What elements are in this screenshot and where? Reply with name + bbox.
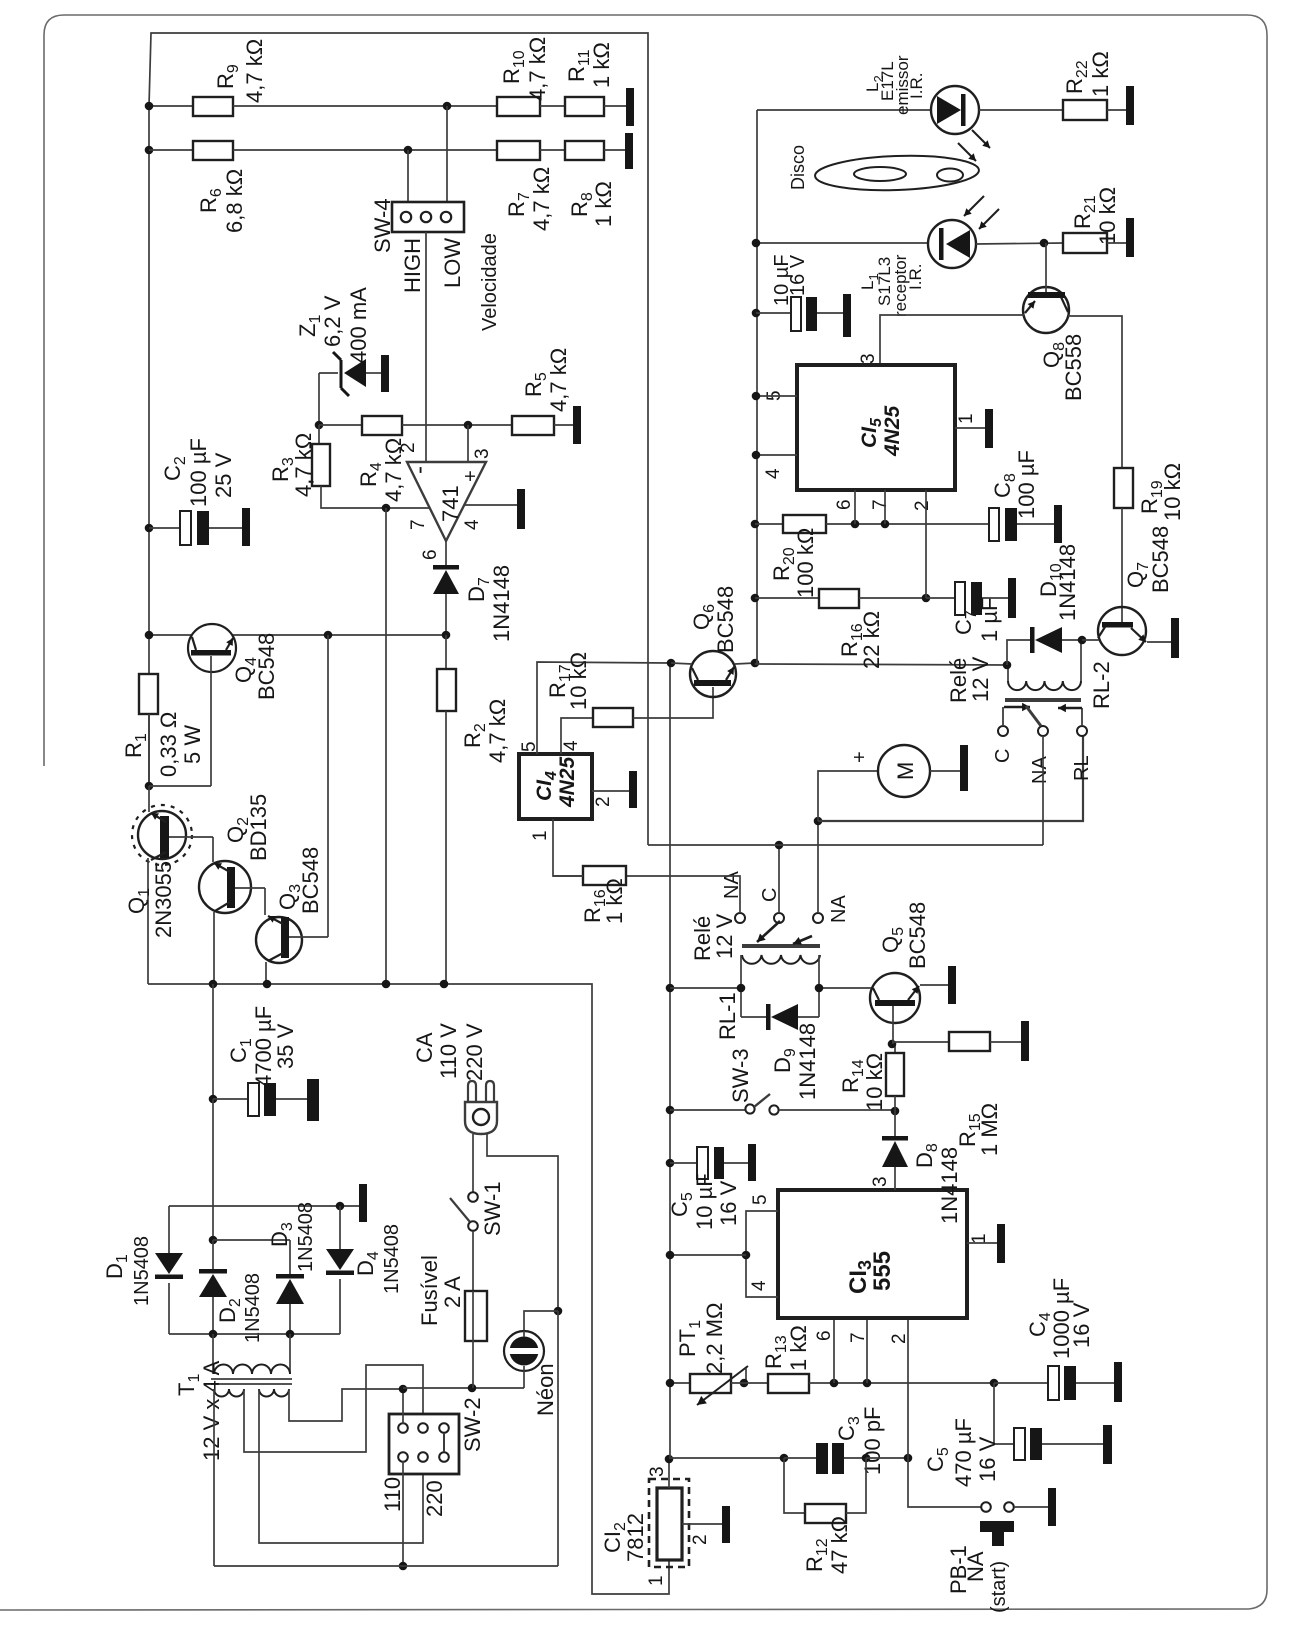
svg-text:12 V x 4 A: 12 V x 4 A xyxy=(199,1360,224,1461)
node +12 at pin45 row xyxy=(666,1251,675,1260)
transistor Q1 2N3055 xyxy=(132,805,192,865)
resistor R2 xyxy=(445,635,447,669)
ground CI2 pin2 xyxy=(722,1506,730,1543)
resistor R7 xyxy=(497,141,540,160)
node 555 pin7 xyxy=(863,1379,872,1388)
svg-text:2: 2 xyxy=(912,500,933,511)
IC CI2 7812 regulator xyxy=(649,1479,689,1567)
resistor R16 22k xyxy=(819,589,859,608)
node C4 tap xyxy=(990,1379,999,1388)
resistor R13 xyxy=(768,1374,809,1393)
wire CI5 pin1 to ground xyxy=(955,427,985,429)
transistor Q2 BD135 xyxy=(199,861,251,913)
svg-text:4,7 kΩ: 4,7 kΩ xyxy=(242,39,267,103)
svg-text:100 µF: 100 µF xyxy=(186,438,211,507)
fuse Fusivel 2A xyxy=(465,1291,487,1341)
wire R6 to R7 xyxy=(233,149,497,151)
svg-text:1 MΩ: 1 MΩ xyxy=(977,1103,1002,1156)
wire 555 pin7 lead xyxy=(866,1318,868,1383)
ground R11 xyxy=(626,88,634,126)
wire RL-1 NA right up xyxy=(817,821,819,913)
node RL-2 coil left xyxy=(1003,661,1012,670)
svg-text:6: 6 xyxy=(814,1330,835,1341)
svg-text:7: 7 xyxy=(408,519,429,530)
disc Disco xyxy=(814,153,979,193)
svg-text:2N3055: 2N3055 xyxy=(151,861,176,938)
wire 555 pins 4,5 tie xyxy=(746,1211,778,1297)
wire primary A left to AC line xyxy=(213,1389,215,1566)
svg-text:SW-3: SW-3 xyxy=(728,1048,753,1103)
svg-text:CA: CA xyxy=(412,1032,437,1063)
node AC bottom left xyxy=(399,1562,408,1571)
node bridge positive xyxy=(209,1236,218,1245)
wire 741 pin6 to D7 xyxy=(445,541,447,565)
svg-text:Velocidade: Velocidade xyxy=(479,233,501,331)
wire AC neutral line y1388 xyxy=(403,1387,524,1389)
svg-text:Néon: Néon xyxy=(533,1363,558,1416)
wire RL-1 C contact up xyxy=(778,845,780,913)
wire plug right lead xyxy=(487,1134,558,1311)
node timing row left xyxy=(666,1379,675,1388)
svg-text:1 kΩ: 1 kΩ xyxy=(591,181,616,227)
svg-text:4,7 kΩ: 4,7 kΩ xyxy=(525,37,550,101)
wire top rail row 1 (R9 line) xyxy=(149,105,193,107)
resistor R17 xyxy=(593,708,633,727)
wire R16 22k row y598 xyxy=(751,594,760,603)
resistor R19 xyxy=(1114,468,1133,508)
svg-text:10 µF: 10 µF xyxy=(692,1173,717,1230)
wire R20 to pins 6,7 and C8 xyxy=(826,523,989,525)
svg-text:(start): (start) xyxy=(988,1561,1010,1613)
node AC line neon tap xyxy=(554,1307,563,1316)
node C3 right xyxy=(862,1454,871,1463)
wire timing row y1383 xyxy=(670,1382,690,1384)
node pin7 rail to raw supply xyxy=(382,504,391,513)
svg-text:2: 2 xyxy=(398,442,419,453)
resistor R8 xyxy=(565,141,604,160)
svg-text:1N5408: 1N5408 xyxy=(295,1202,317,1272)
svg-text:3: 3 xyxy=(472,448,493,459)
node RL-1 C on crosswire xyxy=(775,841,784,850)
svg-text:4,7 kΩ: 4,7 kΩ xyxy=(546,348,571,412)
capacitor C2 xyxy=(145,524,154,533)
svg-text:10 kΩ: 10 kΩ xyxy=(1160,463,1185,521)
svg-text:22 kΩ: 22 kΩ xyxy=(859,611,884,669)
relay RL-2 contacts xyxy=(998,726,1008,736)
wire CI5 pin6 lead xyxy=(854,490,856,524)
node R3/R4/Z1 junction xyxy=(315,421,324,430)
svg-text:12 V: 12 V xyxy=(712,913,737,959)
ground C7 xyxy=(1008,578,1016,618)
wire 555 pin2 to PB-1 xyxy=(908,1458,981,1507)
resistor R6 xyxy=(193,141,233,160)
wire Q4 base link xyxy=(149,785,211,787)
node drive node D7/R2 xyxy=(442,631,451,640)
node AC node (fuse side) xyxy=(399,1385,408,1394)
node raw rail 741 supply xyxy=(382,980,391,989)
switch SW-4 xyxy=(392,202,464,232)
svg-text:555: 555 xyxy=(869,1251,896,1291)
wire crosswire y845 to RL-2 NA xyxy=(648,844,1043,846)
diode D9 xyxy=(766,1004,771,1030)
resistor R3 xyxy=(318,425,320,444)
led L2 emitter xyxy=(931,86,979,134)
svg-text:SW-4: SW-4 xyxy=(370,198,395,253)
wire R11 to ground xyxy=(604,105,626,107)
resistor R10 xyxy=(497,97,540,116)
wire raw supply rail y984 xyxy=(148,984,669,1594)
wire L1 row xyxy=(757,242,929,244)
capacitor C1 xyxy=(212,984,214,1099)
ground CI4 pin2 xyxy=(629,771,637,808)
ground PB-1 xyxy=(1048,1488,1056,1526)
ground 741 pin4 xyxy=(517,489,525,529)
wire SW-1 to fuse xyxy=(472,1231,474,1291)
wire SW-4 wiper to 741 pin2 xyxy=(425,232,427,462)
node fuse bottom xyxy=(468,1384,477,1393)
svg-text:4,7 kΩ: 4,7 kΩ xyxy=(291,433,316,497)
node +12 top junction xyxy=(667,659,676,668)
ground Q5 emitter xyxy=(948,966,956,1004)
node output row left xyxy=(145,631,154,640)
wire Q5 collector to relay xyxy=(817,987,871,989)
svg-text:1 kΩ: 1 kΩ xyxy=(602,878,627,924)
svg-text:110: 110 xyxy=(380,1477,405,1512)
svg-text:1N4148: 1N4148 xyxy=(795,1023,820,1100)
wire +12V vertical distribution xyxy=(669,663,671,1459)
node raw rail Q2 xyxy=(209,980,218,989)
resistor R5 xyxy=(512,416,554,435)
wire primary B left to SW-2 bottom middle xyxy=(259,1389,423,1543)
svg-text:6: 6 xyxy=(420,549,441,560)
node 555 pin2 xyxy=(904,1454,913,1463)
wire 555 pin1 to ground xyxy=(967,1242,997,1244)
capacitor C8 xyxy=(989,508,999,541)
node C3 left xyxy=(780,1454,789,1463)
svg-text:1: 1 xyxy=(956,413,977,424)
wire R17 to Q6 base xyxy=(633,687,713,718)
motor M xyxy=(878,745,930,797)
wire R19 to Q7 base xyxy=(1121,508,1123,622)
wire bridge ac bottom y1334 xyxy=(169,1333,340,1335)
ground Q7 emitter xyxy=(1171,618,1179,658)
svg-text:1 µF: 1 µF xyxy=(977,598,1002,642)
svg-text:4N25: 4N25 xyxy=(556,756,579,808)
ir emission arrows xyxy=(972,130,990,148)
ground Z1 xyxy=(381,355,389,392)
wire bridge ac top xyxy=(169,1205,359,1207)
wire CI2 pin2 to ground xyxy=(682,1523,722,1525)
svg-text:741: 741 xyxy=(438,485,463,522)
wire primary B right to AC node xyxy=(289,1389,403,1421)
resistor R11 xyxy=(565,97,604,116)
wire primary A right to SW-2 top middle xyxy=(244,1365,423,1452)
svg-text:6: 6 xyxy=(834,499,855,510)
wire pin3 drop xyxy=(467,425,469,462)
wire plug left lead xyxy=(472,1134,474,1192)
svg-text:LOW: LOW xyxy=(440,238,465,288)
wire CI5 pin5 to rail xyxy=(756,395,797,397)
wire R20 row y524 xyxy=(751,520,760,529)
transistor Q8 BC558 xyxy=(1023,287,1069,333)
svg-text:Fusível: Fusível xyxy=(417,1255,442,1326)
svg-text:35 V: 35 V xyxy=(273,1023,298,1069)
wire pin7 node down to raw rail xyxy=(385,508,387,984)
relay RL-1 contacts xyxy=(735,913,745,923)
diode D10 xyxy=(1007,640,1030,665)
svg-text:I.R.: I.R. xyxy=(906,264,925,290)
resistor R16 1k xyxy=(583,866,626,885)
resistor R1 xyxy=(139,674,158,714)
svg-text:C: C xyxy=(759,888,781,902)
wire Q8 right lead to R19 xyxy=(1068,316,1122,468)
wire AC bottom y1566 xyxy=(214,1565,558,1567)
svg-text:16 V: 16 V xyxy=(1069,1302,1094,1348)
transistor Q4 xyxy=(188,624,236,672)
svg-text:BC548: BC548 xyxy=(1148,526,1173,593)
resistor R20 xyxy=(783,515,826,533)
svg-text:1N5408: 1N5408 xyxy=(381,1224,403,1294)
wire D7 to drive node xyxy=(445,594,447,635)
svg-text:1 kΩ: 1 kΩ xyxy=(1088,51,1113,97)
svg-text:5: 5 xyxy=(750,1194,771,1205)
relay RL-2 coil xyxy=(1008,681,1081,690)
svg-text:1 kΩ: 1 kΩ xyxy=(589,42,614,88)
wire R9 to R10 row xyxy=(233,105,497,107)
wire SW-3 to R14 node xyxy=(779,1109,895,1111)
svg-text:3: 3 xyxy=(647,1466,668,1477)
wire R3 bottom to 741 pin7 xyxy=(321,486,430,508)
svg-text:BC548: BC548 xyxy=(298,847,323,914)
wire bridge top dc xyxy=(213,1239,290,1241)
svg-text:1N4148: 1N4148 xyxy=(1055,544,1080,621)
svg-text:100 pF: 100 pF xyxy=(860,1407,885,1476)
wire output row y635 xyxy=(149,634,192,636)
wire CI4 pin4 to R17 xyxy=(561,718,593,754)
op-amp 741 xyxy=(407,462,486,541)
svg-text:BC558: BC558 xyxy=(1061,334,1086,401)
wire C1 node to bridge xyxy=(212,1099,214,1240)
svg-text:100 µF: 100 µF xyxy=(1014,450,1039,519)
svg-text:10 kΩ: 10 kΩ xyxy=(1095,187,1120,245)
wire pin45 to +12 xyxy=(670,1254,746,1256)
wire RL-1 NA left to R16 xyxy=(626,876,740,913)
wire CI5 pin4 to rail xyxy=(756,454,797,456)
diode D3 xyxy=(289,1240,291,1274)
ground R5 xyxy=(573,406,581,444)
wire R2 to raw rail xyxy=(445,711,447,984)
wire R13 to pins 6,7 xyxy=(809,1382,994,1384)
capacitor C4 xyxy=(994,1382,1048,1384)
resistor R21 xyxy=(1063,233,1107,253)
diode D1 xyxy=(168,1206,170,1253)
svg-text:RL-2: RL-2 xyxy=(1089,661,1114,709)
node Q3 base drop xyxy=(324,631,333,640)
svg-text:1N5408: 1N5408 xyxy=(242,1273,264,1343)
ground C8 xyxy=(1054,505,1062,543)
capacitor C3 xyxy=(816,1443,828,1474)
wire motor feed crossbar y821 xyxy=(818,736,1083,821)
svg-text:6,2 V: 6,2 V xyxy=(320,295,345,347)
wire neon top lead xyxy=(524,1311,558,1331)
svg-text:7: 7 xyxy=(870,499,891,510)
svg-text:3: 3 xyxy=(858,353,879,364)
svg-text:1: 1 xyxy=(646,1575,667,1586)
wire CI2 pin3 to +12 node xyxy=(668,1459,670,1488)
wire SW-4 HIGH lead xyxy=(446,106,448,202)
wire +V left rail and top rail to disc section xyxy=(149,33,648,845)
svg-text:5 W: 5 W xyxy=(180,725,205,764)
svg-text:110 V: 110 V xyxy=(436,1023,461,1079)
svg-text:2: 2 xyxy=(889,1333,910,1344)
svg-text:7: 7 xyxy=(848,1332,869,1343)
svg-text:4,7 kΩ: 4,7 kΩ xyxy=(529,167,554,231)
svg-text:1N4148: 1N4148 xyxy=(937,1147,962,1224)
node raw rail R2 xyxy=(440,980,449,989)
svg-text:220 V: 220 V xyxy=(462,1023,487,1081)
svg-text:25 V: 25 V xyxy=(211,452,236,498)
transistor Q3 BC548 xyxy=(256,917,302,963)
wire +12 to RL-1 coil xyxy=(670,987,741,989)
wire CI4 pin2 to ground xyxy=(592,790,629,792)
wire AC line to bottom xyxy=(557,1311,559,1566)
neon lamp xyxy=(504,1331,544,1371)
wire SW-4 LOW lead xyxy=(407,150,409,202)
svg-text:RL-1: RL-1 xyxy=(715,992,740,1040)
wire rail row 2 (R6 line) xyxy=(149,149,193,151)
wire L2 row xyxy=(757,109,932,111)
svg-text:4: 4 xyxy=(462,519,483,530)
svg-text:2 A: 2 A xyxy=(440,1276,465,1308)
svg-text:BC548: BC548 xyxy=(713,586,738,653)
node R9 row / SW-4 HIGH drop xyxy=(443,102,452,111)
wire +12 rail disc section xyxy=(756,110,758,663)
svg-text:SW-2: SW-2 xyxy=(460,1397,485,1452)
ground R8 xyxy=(625,133,633,169)
svg-text:400 mA: 400 mA xyxy=(346,287,371,363)
ground R22 xyxy=(1126,86,1134,125)
switch SW-3 xyxy=(666,1106,675,1115)
resistor R9 xyxy=(193,97,233,116)
capacitor C5 470uF xyxy=(994,1383,1014,1444)
svg-text:1 kΩ: 1 kΩ xyxy=(786,1325,811,1371)
transistor Q7 xyxy=(1098,607,1146,655)
svg-text:16 V: 16 V xyxy=(975,1436,1000,1482)
wire R8 to ground xyxy=(604,149,625,151)
transistor Q6 xyxy=(690,651,736,697)
svg-text:4: 4 xyxy=(749,1280,770,1291)
switch SW-1 xyxy=(468,1192,478,1202)
svg-text:100 kΩ: 100 kΩ xyxy=(793,528,818,598)
capacitor C7 xyxy=(926,597,955,599)
svg-text:4: 4 xyxy=(763,468,784,479)
node CI5 pin7 xyxy=(881,520,890,529)
wire timer row y1458 xyxy=(670,1457,784,1459)
svg-text:0,33 Ω: 0,33 Ω xyxy=(156,712,181,777)
ir reflection arrows xyxy=(964,196,984,216)
ground C2 xyxy=(242,508,250,546)
wire RL-2 NA contact down xyxy=(1042,736,1044,845)
svg-text:+: + xyxy=(460,470,482,482)
svg-text:NA: NA xyxy=(963,1551,988,1582)
wire SW-2 top-left pin to AC node xyxy=(402,1389,404,1424)
ground CI5 pin1 xyxy=(985,409,993,448)
node 555 pin6 xyxy=(830,1379,839,1388)
wire 555 pin6 lead xyxy=(833,1318,835,1383)
led L1 receptor xyxy=(928,220,976,268)
svg-text:1N5408: 1N5408 xyxy=(131,1236,153,1306)
svg-text:4,7 kΩ: 4,7 kΩ xyxy=(485,699,510,763)
node CI5 pin6 xyxy=(851,520,860,529)
ground C4 xyxy=(1114,1362,1122,1402)
ground R15 xyxy=(1021,1021,1029,1061)
node +12V output node xyxy=(665,1455,674,1464)
node PT1 wiper xyxy=(740,1379,749,1388)
diode D4 xyxy=(339,1206,341,1249)
IC CI3 555 xyxy=(778,1190,967,1318)
wire CI5 pin7 lead xyxy=(884,490,886,524)
ground motor xyxy=(960,745,968,791)
diode D8 xyxy=(894,1111,896,1136)
svg-text:BC548: BC548 xyxy=(254,633,279,700)
resistor R22 xyxy=(1063,100,1107,120)
svg-text:2: 2 xyxy=(593,796,614,807)
switch SW-2 xyxy=(389,1414,459,1474)
plug CA xyxy=(468,1081,476,1103)
node left rail row2 xyxy=(145,146,154,155)
resistor R4 xyxy=(362,416,402,435)
resistor R15 xyxy=(949,1032,990,1051)
wire R16 to pin2 node xyxy=(859,597,926,599)
svg-text:BD135: BD135 xyxy=(246,794,271,861)
svg-text:I.R.: I.R. xyxy=(907,73,926,99)
ground R21 xyxy=(1126,218,1134,257)
svg-text:16 V: 16 V xyxy=(716,1180,741,1226)
svg-text:1N4148: 1N4148 xyxy=(489,565,514,642)
svg-text:2: 2 xyxy=(690,1534,711,1545)
wire motor positive lead xyxy=(818,771,878,821)
transformer T1 xyxy=(212,1334,214,1374)
svg-text:BC548: BC548 xyxy=(905,902,930,969)
svg-text:10 kΩ: 10 kΩ xyxy=(862,1053,887,1111)
svg-text:1: 1 xyxy=(530,830,551,841)
svg-text:C: C xyxy=(992,749,1014,763)
svg-text:12 V: 12 V xyxy=(968,656,993,702)
svg-text:7812: 7812 xyxy=(623,1513,648,1562)
ground 555 pin1 xyxy=(997,1224,1005,1263)
wire Q8 left lead to CI5 pin3 xyxy=(880,315,1024,365)
wire R7-R8 xyxy=(540,149,565,151)
wire Q3 base to drive node xyxy=(327,635,329,937)
IC CI5 4N25 xyxy=(797,365,955,490)
wire R4 to R5 with pin3 tap xyxy=(402,424,512,426)
potentiometer PT1 xyxy=(690,1374,731,1393)
svg-text:47 kΩ: 47 kΩ xyxy=(827,1516,852,1574)
diode D2 xyxy=(212,1240,214,1269)
svg-text:+: + xyxy=(849,751,871,763)
wire CI4 pin5 up and right xyxy=(537,662,671,754)
svg-text:M: M xyxy=(893,762,918,780)
resistor R14 xyxy=(894,1044,896,1053)
wire C3 to pin2 node xyxy=(866,1457,908,1459)
svg-text:6,8 kΩ: 6,8 kΩ xyxy=(222,169,247,233)
wire 741 pin4 to ground xyxy=(464,504,517,506)
wire R1 bottom node xyxy=(148,714,150,786)
node 555 pin4/5 tie xyxy=(742,1251,751,1260)
node motor feed xyxy=(814,817,823,826)
push button PB-1 xyxy=(981,1502,991,1512)
node R14 top wire xyxy=(891,1107,900,1116)
